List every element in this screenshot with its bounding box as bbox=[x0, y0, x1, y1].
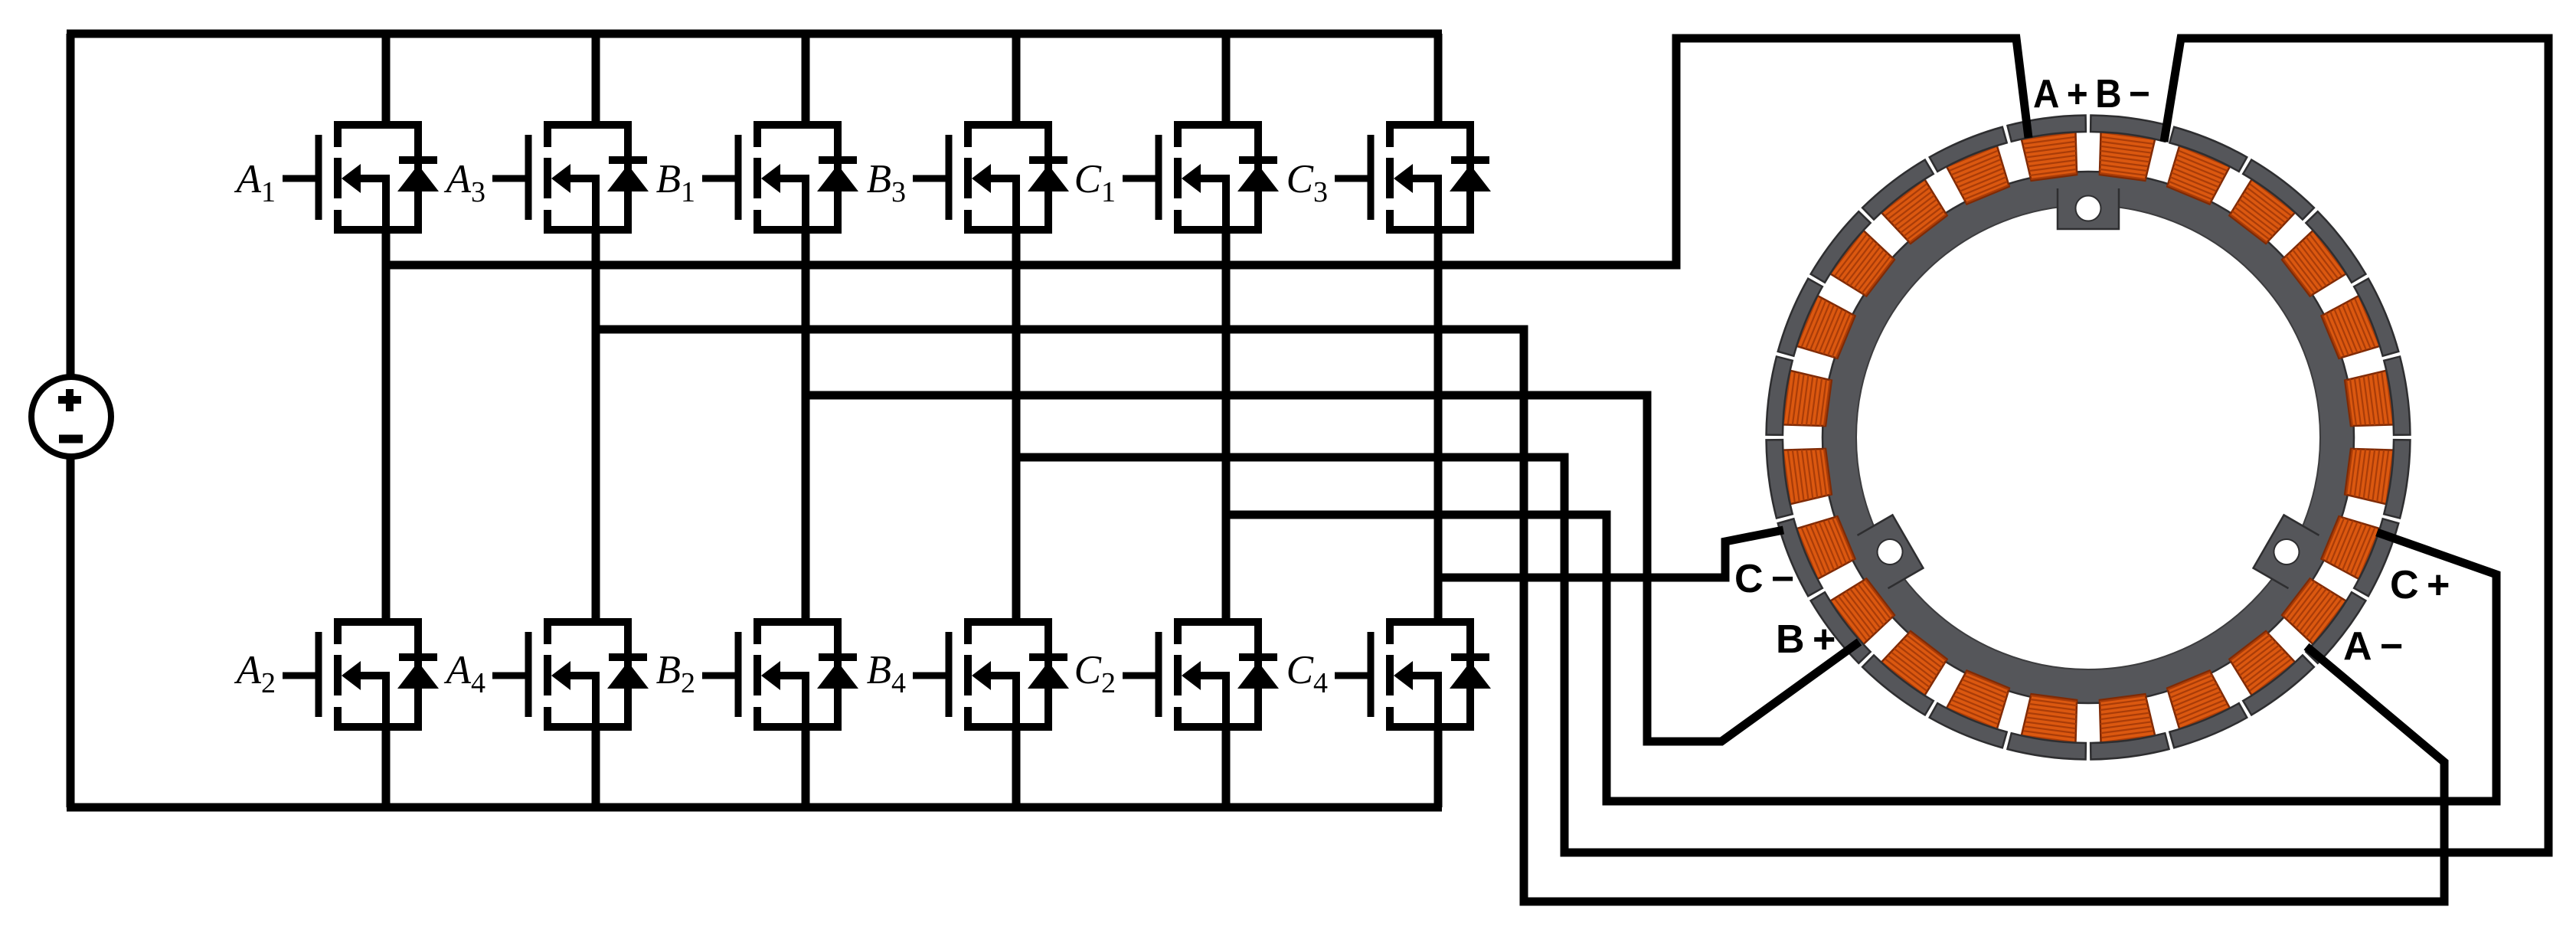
wire: phase leg midpoint A3 column bbox=[592, 230, 600, 622]
wire: phase A+ output (leg A to stator top) bbox=[386, 38, 2028, 265]
wire: left rail from source + to top bus bbox=[67, 34, 75, 375]
wire: drain lead of C1 from top bus bbox=[1222, 34, 1231, 125]
wire: phase leg midpoint B1 column bbox=[802, 230, 810, 622]
wire: phase leg midpoint C1 column bbox=[1222, 230, 1231, 622]
svg-text:A −: A − bbox=[2343, 624, 2403, 669]
wire: negative DC bus (bottom rail) bbox=[67, 803, 1442, 812]
wire: source lead of lower FET A3 column to bottom bus bbox=[592, 727, 600, 807]
wire: phase B- output (leg B3 to stator top right) bbox=[1016, 38, 2548, 853]
wire: drain lead of A1 from top bus bbox=[382, 34, 391, 125]
wire: source lead of lower FET B1 column to bottom bus bbox=[802, 727, 810, 807]
wire: source lead of lower FET C1 column to bottom bus bbox=[1222, 727, 1231, 807]
wire: drain lead of B1 from top bus bbox=[802, 34, 810, 125]
transistor C1 (N-MOSFET with body diode) bbox=[1074, 125, 1279, 230]
transistor B3 (N-MOSFET with body diode) bbox=[867, 125, 1069, 230]
transistor B1 (N-MOSFET with body diode) bbox=[656, 125, 858, 230]
wire: phase A- output (leg A3 to stator lower right) bbox=[596, 329, 2444, 902]
stator mounting tab at 210 deg bbox=[1854, 515, 1923, 590]
transistor C3 (N-MOSFET with body diode) bbox=[1286, 125, 1491, 230]
stator mounting tab at 330 deg bbox=[2254, 515, 2323, 590]
transistor A2 (N-MOSFET with body diode) bbox=[234, 622, 439, 727]
wire: phase leg midpoint B3 column bbox=[1012, 230, 1021, 622]
stator mounting tab at 90 deg bbox=[2058, 185, 2119, 229]
transistor B2 (N-MOSFET with body diode) bbox=[656, 622, 858, 727]
stator yoke ring bbox=[1839, 188, 2337, 686]
wire: source lead of lower FET A1 column to bottom bus bbox=[382, 727, 391, 807]
voltage source V1 (DC source) bbox=[31, 377, 111, 457]
transistor C4 (N-MOSFET with body diode) bbox=[1286, 622, 1491, 727]
svg-text:C +: C + bbox=[2390, 563, 2450, 607]
stator pole shoes (outer segments) bbox=[1764, 113, 2412, 761]
transistor A3 (N-MOSFET with body diode) bbox=[444, 125, 649, 230]
wire: drain lead of B3 from top bus bbox=[1012, 34, 1021, 125]
transistor A4 (N-MOSFET with body diode) bbox=[444, 622, 649, 727]
transistor C2 (N-MOSFET with body diode) bbox=[1074, 622, 1279, 727]
stator coils (24 windings) bbox=[1780, 129, 2397, 746]
wire: drain lead of C3 from top bus bbox=[1434, 34, 1443, 125]
wire: phase leg midpoint C3 column bbox=[1434, 230, 1443, 622]
wire: phase leg midpoint A1 column bbox=[382, 230, 391, 622]
svg-text:C −: C − bbox=[1734, 557, 1794, 601]
transistor B4 (N-MOSFET with body diode) bbox=[867, 622, 1069, 727]
wire: source lead of lower FET C3 column to bottom bus bbox=[1434, 727, 1443, 807]
wire: phase C- output (leg C3 to stator left) bbox=[1438, 530, 1783, 578]
wire: source lead of lower FET B3 column to bottom bus bbox=[1012, 727, 1021, 807]
wire: positive DC bus (top rail) bbox=[67, 30, 1442, 38]
wire: drain lead of A3 from top bus bbox=[592, 34, 600, 125]
wire: left rail from source - to bottom bus bbox=[67, 459, 75, 807]
transistor A1 (N-MOSFET with body diode) bbox=[234, 125, 439, 230]
wire: phase C+ output (leg C to stator right) bbox=[1226, 515, 2496, 801]
stator (motor stator with windings) bbox=[1764, 113, 2412, 761]
wire: phase B+ output (leg B to stator lower left) bbox=[806, 395, 1859, 741]
svg-text:A + B −: A + B − bbox=[2033, 72, 2150, 116]
svg-text:B +: B + bbox=[1776, 617, 1836, 662]
